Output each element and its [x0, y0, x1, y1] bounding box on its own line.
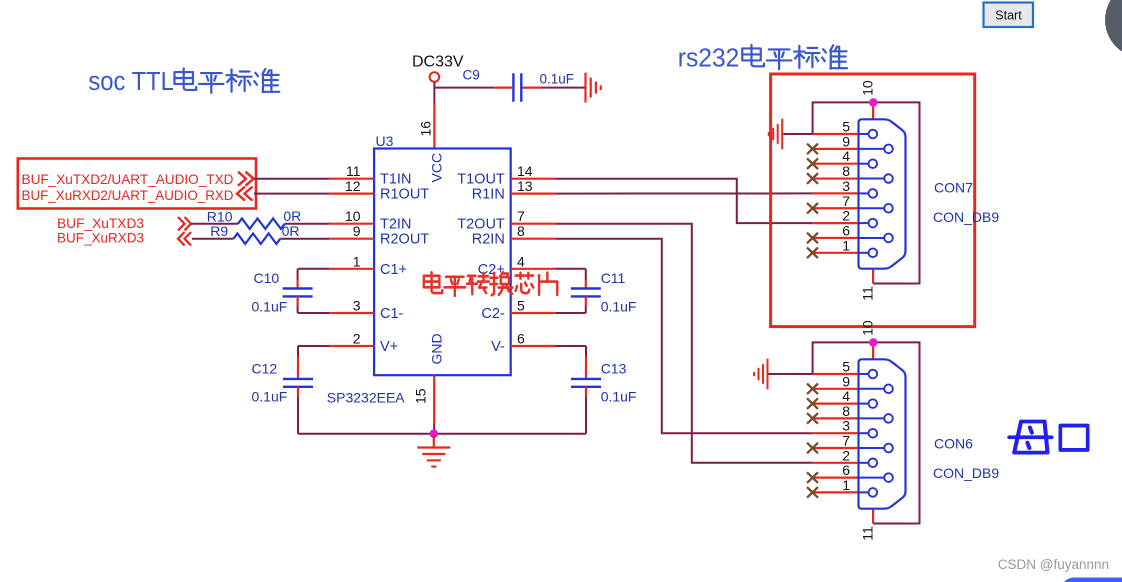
svg-text:R2IN: R2IN — [472, 232, 505, 248]
pin 9 (R2OUT) stub — [329, 238, 374, 240]
CON6 pin 1 line — [813, 491, 859, 493]
pin 14 (T1OUT) stub — [511, 178, 556, 180]
CON7 pin 5 contact — [859, 133, 873, 135]
resistor R9 — [234, 234, 281, 244]
svg-text:10: 10 — [860, 320, 876, 336]
CON6 pin 9 line — [813, 388, 859, 390]
svg-text:6: 6 — [842, 462, 850, 478]
svg-text:1: 1 — [842, 237, 850, 253]
CON7 no-connect X (pin 9) — [807, 144, 818, 155]
wire TXD3 to R10 — [191, 223, 238, 225]
label: level conversion chip (red CJK) — [424, 272, 442, 293]
svg-text:11: 11 — [860, 526, 876, 541]
pin 13 (R1IN) stub — [511, 193, 556, 195]
CON6 no-connect X (pin 6) — [807, 472, 818, 483]
CON7 pin 6 line — [813, 237, 859, 239]
svg-text:V+: V+ — [380, 339, 398, 355]
wire: C9 to ground — [523, 86, 542, 88]
svg-text:T1OUT: T1OUT — [457, 172, 505, 188]
capacitor C9 — [512, 73, 514, 101]
svg-text:soc TTL: soc TTL — [88, 68, 173, 96]
svg-text:CON6: CON6 — [934, 436, 973, 452]
pin 10 (T2IN) stub — [329, 223, 374, 225]
svg-text:8: 8 — [517, 223, 525, 239]
CON7 pin 5 line — [813, 133, 859, 135]
junction node (magenta) — [430, 429, 439, 438]
svg-text:5: 5 — [517, 298, 525, 314]
CON7 pin 8 contact — [859, 178, 889, 180]
svg-text:2: 2 — [842, 208, 850, 224]
svg-text:3: 3 — [842, 418, 850, 434]
wire R10 to T2IN — [285, 223, 329, 225]
svg-text:T2OUT: T2OUT — [457, 217, 505, 233]
svg-text:R2OUT: R2OUT — [380, 232, 429, 248]
CON7 no-connect X (pin 1) — [807, 248, 818, 259]
wire T1OUT to CON7 pin2 — [555, 179, 812, 223]
svg-text:0R: 0R — [282, 223, 300, 239]
svg-text:V-: V- — [491, 339, 505, 355]
wire V+ to C12 — [298, 345, 329, 347]
svg-text:BUF_XuRXD3: BUF_XuRXD3 — [57, 230, 144, 246]
CON7 pin 2 line — [813, 222, 859, 224]
svg-text:BUF_XuRXD2/UART_AUDIO_RXD: BUF_XuRXD2/UART_AUDIO_RXD — [22, 187, 234, 203]
CON6 pin 6 contact — [859, 477, 889, 479]
CON7 pin 4 contact — [859, 163, 873, 165]
svg-text:C9: C9 — [463, 68, 480, 83]
CON7 pin 2 contact — [859, 222, 873, 224]
power port circle — [430, 72, 440, 82]
svg-text:rs232: rs232 — [678, 44, 740, 72]
svg-text:5: 5 — [842, 359, 850, 375]
svg-text:10: 10 — [860, 80, 876, 96]
svg-text:R1OUT: R1OUT — [380, 187, 429, 203]
CON6 pin 8 contact — [859, 417, 889, 419]
CON7 top loop wire (pin 10) — [813, 102, 920, 283]
svg-text:0.1uF: 0.1uF — [601, 389, 637, 405]
pin 5 (C2-) stub — [511, 312, 556, 314]
chevron << (RXD3) — [178, 232, 191, 245]
wire: DC33V down to VCC pin 16 — [433, 82, 435, 103]
svg-text:0.1uF: 0.1uF — [252, 299, 288, 315]
wire T2OUT to CON6 pin2 — [555, 224, 812, 463]
CON7 pin 6 contact — [859, 237, 889, 239]
svg-text:1: 1 — [842, 477, 850, 493]
CON6 no-connect X (pin 9) — [807, 384, 818, 395]
CON7 pin 11 stub — [872, 269, 874, 284]
CON6 pin 7 contact — [859, 447, 889, 449]
svg-text:11: 11 — [346, 163, 361, 179]
wire V- to C13 — [555, 345, 586, 347]
svg-text:5: 5 — [842, 119, 850, 135]
pin 4 (C2+) stub — [511, 268, 556, 270]
CON6 junction dot (pin 10) — [869, 338, 878, 347]
op-amp/transceiver chip U3 body — [374, 149, 511, 376]
CON6 no-connect X (pin 4) — [807, 398, 818, 409]
CON6 pin 11 stub — [872, 509, 874, 524]
wire TXD2 to T1IN — [254, 178, 329, 180]
pin 11 (T1IN) stub — [329, 178, 374, 180]
svg-text:CON_DB9: CON_DB9 — [933, 465, 999, 481]
capacitor C10 — [297, 269, 299, 280]
svg-text:4: 4 — [842, 388, 850, 404]
CON6 pin 4 line — [813, 403, 859, 405]
svg-text:7: 7 — [517, 208, 525, 224]
svg-text:CSDN @fuyannnn: CSDN @fuyannnn — [998, 557, 1109, 572]
CON6 pin 2 line — [813, 462, 859, 464]
svg-text:14: 14 — [517, 163, 533, 179]
wire R2IN to CON6 pin3 — [555, 239, 812, 434]
Start button — [984, 3, 1034, 28]
svg-text:4: 4 — [842, 148, 850, 164]
svg-text:13: 13 — [517, 178, 533, 194]
svg-text:0R: 0R — [283, 208, 301, 224]
pin 7 (T2OUT) stub — [511, 223, 556, 225]
wire C2+ to C11 — [555, 268, 585, 270]
wire: DC33V to C9 — [434, 87, 494, 89]
CON7 DB9 shell — [859, 119, 906, 268]
svg-text:6: 6 — [517, 331, 525, 347]
svg-text:CON_DB9: CON_DB9 — [933, 209, 999, 225]
CON7 junction dot (pin 10) — [869, 98, 878, 107]
CON7 ground symbol — [781, 119, 783, 150]
wire RXD3 to R9 — [192, 238, 234, 240]
pin 2 (V+) stub — [329, 345, 374, 347]
wire RXD2 to R1OUT — [254, 193, 329, 195]
svg-text:7: 7 — [842, 193, 850, 209]
pin 3 (C1-) stub — [329, 312, 374, 314]
wire C10 to C1- — [298, 312, 329, 314]
CON6 no-connect X (pin 1) — [807, 487, 818, 498]
ground symbol (below chip) — [417, 446, 450, 448]
ground symbol (right of C9) — [584, 73, 586, 103]
svg-text:C2-: C2- — [481, 306, 505, 322]
svg-text:6: 6 — [842, 222, 850, 238]
pin 1 (C1+) stub — [329, 268, 374, 270]
svg-text:7: 7 — [842, 433, 850, 449]
svg-text:15: 15 — [413, 388, 429, 404]
wire C11 to C2- — [555, 312, 585, 314]
svg-text:R10: R10 — [207, 209, 233, 225]
pin 12 (R1OUT) stub — [329, 193, 374, 195]
ground bus wire — [298, 433, 586, 435]
svg-text:U3: U3 — [376, 133, 394, 149]
svg-text:12: 12 — [345, 178, 361, 194]
capacitor C13 — [585, 346, 587, 357]
svg-text:C13: C13 — [601, 361, 627, 377]
svg-text:C1+: C1+ — [380, 262, 407, 278]
svg-text:9: 9 — [842, 373, 850, 389]
svg-text:10: 10 — [345, 208, 361, 224]
CON7 no-connect X (pin 7) — [807, 203, 818, 214]
svg-text:R1IN: R1IN — [472, 187, 505, 203]
svg-text:CON7: CON7 — [934, 180, 973, 196]
svg-text:GND: GND — [429, 333, 445, 364]
capacitor C12 — [297, 346, 299, 357]
CON6 pin 5 line — [813, 373, 859, 375]
CON6 DB9 shell — [859, 359, 906, 508]
CON7 pin 3 contact — [859, 192, 873, 194]
CON7 pin 8 line — [813, 177, 859, 179]
pin 6 (V-) stub — [511, 345, 556, 347]
pin 16 stub — [433, 103, 435, 149]
CON7 wire ground to pin5 — [783, 133, 812, 135]
svg-text:0.1uF: 0.1uF — [601, 299, 637, 315]
chevron >> (TXD2) — [238, 172, 254, 186]
svg-text:4: 4 — [517, 253, 525, 269]
svg-text:DC33V: DC33V — [412, 54, 464, 71]
svg-text:T2IN: T2IN — [380, 217, 411, 233]
svg-text:R9: R9 — [210, 223, 228, 239]
svg-text:16: 16 — [418, 121, 434, 137]
svg-text:T1IN: T1IN — [380, 172, 411, 188]
svg-text:2: 2 — [353, 331, 361, 347]
CON6 pin 7 line — [813, 447, 859, 449]
CON7 pin 10 stub — [872, 102, 874, 119]
CON6 pin 10 stub — [872, 342, 874, 359]
CON7 no-connect X (pin 6) — [807, 233, 818, 244]
capacitor C11 — [585, 269, 587, 280]
svg-text:8: 8 — [842, 403, 850, 419]
svg-text:11: 11 — [860, 286, 876, 301]
wire C1+ to C10 — [298, 268, 329, 270]
svg-text:C11: C11 — [601, 270, 626, 286]
svg-text:9: 9 — [842, 133, 850, 149]
CON7 pin 9 contact — [859, 148, 889, 150]
svg-text:Start: Start — [995, 9, 1022, 23]
CON7 pin 3 line — [813, 192, 859, 194]
CON6 top loop wire (pin 10) — [813, 342, 920, 523]
svg-text:9: 9 — [353, 223, 361, 239]
CON6 no-connect X (pin 8) — [807, 413, 818, 424]
CON7 pin 1 line — [813, 252, 859, 254]
wire R9 to R2OUT — [280, 238, 329, 240]
svg-text:SP3232EEA: SP3232EEA — [327, 390, 405, 406]
CON6 pin 5 contact — [859, 373, 873, 375]
resistor R10 — [238, 219, 285, 229]
svg-text:C12: C12 — [252, 361, 278, 377]
svg-text:0.1uF: 0.1uF — [540, 72, 575, 87]
red group box: soc TTL signals — [18, 159, 256, 209]
svg-text:3: 3 — [842, 178, 850, 194]
CON6 pin 2 contact — [859, 462, 873, 464]
svg-text:0.1uF: 0.1uF — [252, 389, 288, 405]
pin 8 (R2IN) stub — [511, 238, 556, 240]
label: female connector (big blue CJK) — [1009, 422, 1051, 453]
CON6 wire ground to pin5 — [769, 373, 813, 375]
CON6 pin 6 line — [813, 477, 859, 479]
CON7 pin 4 line — [813, 163, 859, 165]
chevron << (RXD2) — [237, 187, 253, 201]
CON7 no-connect X (pin 8) — [807, 173, 818, 184]
blue pill bottom right — [1061, 578, 1122, 582]
CON7 pin 1 contact — [859, 252, 873, 254]
svg-text:BUF_XuTXD2/UART_AUDIO_TXD: BUF_XuTXD2/UART_AUDIO_TXD — [22, 171, 234, 187]
wire R1IN to CON7 pin3 — [555, 192, 812, 194]
svg-text:8: 8 — [842, 163, 850, 179]
svg-text:2: 2 — [842, 447, 850, 463]
svg-text:C10: C10 — [254, 270, 280, 286]
CON6 pin 3 line — [813, 432, 859, 434]
svg-text:1: 1 — [353, 253, 361, 269]
CON6 pin 3 contact — [859, 432, 873, 434]
svg-text:3: 3 — [353, 298, 361, 314]
CON7 pin 7 contact — [859, 207, 889, 209]
CON7 pin 9 line — [813, 148, 859, 150]
pin 15 stub (GND, bottom) — [433, 375, 435, 424]
CON6 pin 9 contact — [859, 388, 889, 390]
CON6 ground symbol — [767, 359, 769, 390]
CON7 no-connect X (pin 4) — [807, 158, 818, 169]
ground stem — [433, 435, 435, 448]
CON7 pin 7 line — [813, 207, 859, 209]
chevron >> (TXD3) — [178, 217, 191, 230]
svg-text:VCC: VCC — [429, 153, 445, 183]
svg-text:C1-: C1- — [380, 306, 404, 322]
CON6 pin 4 contact — [859, 403, 873, 405]
CON6 pin 8 line — [813, 417, 859, 419]
CON6 pin 1 contact — [859, 491, 873, 493]
dark corner circle — [1105, 0, 1122, 58]
CON6 no-connect X (pin 7) — [807, 443, 818, 454]
red group box: rs232 side — [771, 74, 975, 327]
